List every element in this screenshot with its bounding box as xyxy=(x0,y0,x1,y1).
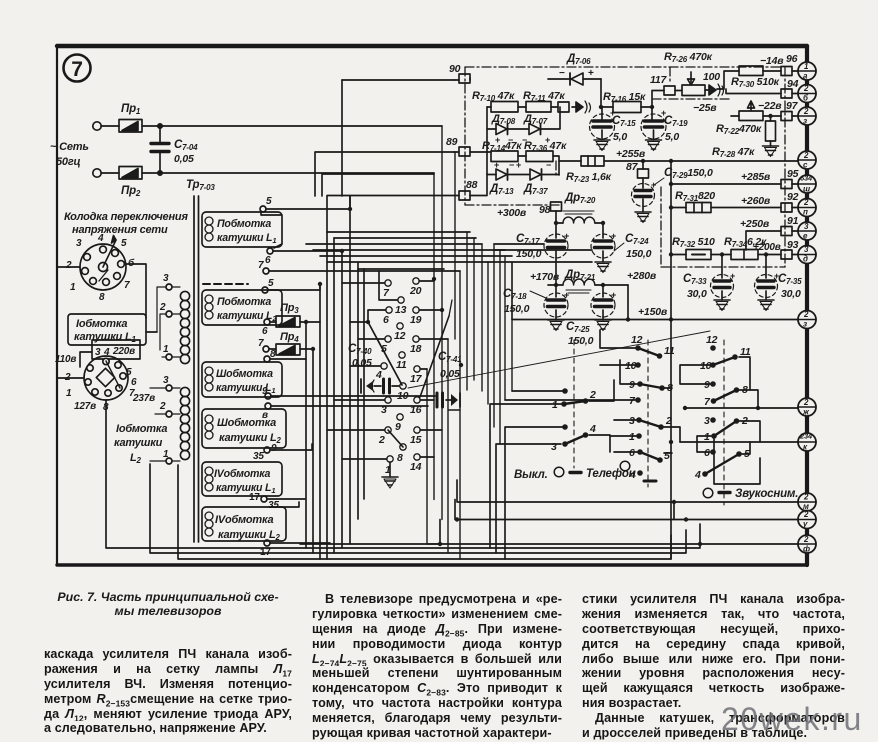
fuse Пр4 xyxy=(276,331,300,355)
svg-text:88: 88 xyxy=(466,179,478,191)
switch S4 dashed axis xyxy=(723,340,725,505)
capacitor C7-15 xyxy=(590,107,637,151)
winding box III L1 xyxy=(202,362,282,397)
svg-text:Iобмотка: Iобмотка xyxy=(76,318,127,330)
svg-text:д: д xyxy=(803,255,808,264)
primary coil L2 (left of core) xyxy=(180,387,189,459)
svg-text:2: 2 xyxy=(803,398,809,407)
S1 contact wires right xyxy=(419,281,448,457)
svg-text:11: 11 xyxy=(664,345,675,357)
svg-text:2: 2 xyxy=(803,198,809,207)
weave feeder verticals right xyxy=(482,244,500,444)
svg-text:2: 2 xyxy=(803,510,809,519)
label Колодка переключения напряжения сети xyxy=(64,211,188,236)
svg-text:+: + xyxy=(730,271,735,281)
svg-text:−: − xyxy=(559,68,565,79)
svg-text:6: 6 xyxy=(629,447,635,459)
svg-text:0,05: 0,05 xyxy=(174,153,194,165)
svg-text:+: + xyxy=(611,290,616,300)
label 117 and square xyxy=(650,74,682,107)
wire socket2 left xyxy=(57,352,92,378)
svg-text:2: 2 xyxy=(159,401,166,412)
bus terminal 1/a xyxy=(798,62,816,81)
svg-text:5: 5 xyxy=(664,450,670,462)
svg-text:4: 4 xyxy=(375,369,382,381)
svg-text:2: 2 xyxy=(803,151,809,160)
svg-text:IVобмотка: IVобмотка xyxy=(214,468,271,480)
svg-text:3: 3 xyxy=(381,404,387,416)
svg-text:8: 8 xyxy=(99,292,105,303)
middle bank ground xyxy=(0,0,1,1)
bottom harness wires xyxy=(106,400,700,559)
pin 7 of II L1 xyxy=(258,260,269,274)
junction dots R7-16 row xyxy=(599,105,603,109)
text column 1 xyxy=(44,647,292,736)
resistor R7-23 striped xyxy=(566,156,612,184)
wire row 2/у xyxy=(455,500,798,520)
capacitor C7-04 xyxy=(151,126,198,173)
svg-text:R7-26 470к: R7-26 470к xyxy=(664,51,713,64)
svg-text:катушки L2: катушки L2 xyxy=(218,529,281,542)
svg-text:5,0: 5,0 xyxy=(665,131,679,143)
svg-text:0,05: 0,05 xyxy=(440,368,460,380)
svg-text:7: 7 xyxy=(258,338,264,349)
svg-text:+: + xyxy=(494,160,499,170)
S1 lower wires xyxy=(427,369,442,544)
svg-text:+280в: +280в xyxy=(627,270,657,282)
svg-text:~ Сеть: ~ Сеть xyxy=(50,141,89,153)
wire 98 down xyxy=(555,211,557,234)
wire to 89 xyxy=(315,152,454,196)
svg-text:R7-22470к: R7-22470к xyxy=(716,123,762,136)
connector square 91 xyxy=(781,215,799,236)
svg-text:220в: 220в xyxy=(112,346,135,357)
svg-text:3: 3 xyxy=(163,273,169,284)
switch S4 arms xyxy=(713,357,735,365)
svg-text:18: 18 xyxy=(410,343,422,355)
wire pin7 IIL2 to Пр4 xyxy=(269,348,313,350)
wire pins IVL1 xyxy=(267,499,305,507)
svg-text:7: 7 xyxy=(129,388,135,399)
switch S3 ground xyxy=(644,480,656,483)
svg-text:91: 91 xyxy=(787,215,799,227)
label Телефон xyxy=(570,461,636,480)
S1 wiper C7-41 xyxy=(420,316,449,397)
svg-text:12: 12 xyxy=(394,330,406,342)
svg-text:1: 1 xyxy=(163,344,169,355)
voltage selector socket xyxy=(65,233,135,303)
mains terminal bottom xyxy=(93,169,101,177)
svg-text:2: 2 xyxy=(65,260,72,271)
resistor R7-28 vertical xyxy=(712,114,779,159)
svg-text:8: 8 xyxy=(397,452,403,464)
wire row 2/ф xyxy=(300,520,798,545)
caption xyxy=(43,590,293,618)
diode Д7-07 xyxy=(522,107,560,145)
capacitor C7-29 xyxy=(632,167,713,223)
text column 2 xyxy=(312,592,562,741)
svg-text:9: 9 xyxy=(704,379,710,391)
switch S3 dashed axis xyxy=(647,340,649,487)
svg-text:1: 1 xyxy=(70,282,76,293)
switch S4 wires xyxy=(680,357,760,484)
switch S3 arms xyxy=(638,348,660,356)
connector square 92 xyxy=(781,191,799,212)
svg-text:+: + xyxy=(611,231,616,241)
potentiometer R7-26 xyxy=(664,51,724,96)
switch S2 contacts xyxy=(561,388,588,447)
fuse Пр2 xyxy=(119,167,142,199)
svg-text:150,0: 150,0 xyxy=(568,335,594,347)
resistor R7-32 xyxy=(669,236,731,260)
tap square and grid arrow xyxy=(558,101,591,113)
wire to 88 row xyxy=(327,196,459,233)
svg-text:35: 35 xyxy=(268,500,279,511)
bus terminal 2/у xyxy=(798,510,816,529)
bus terminal 2/з lower xyxy=(798,310,816,329)
switch wafer S1 contacts left column xyxy=(375,280,393,476)
wire R7-10 row xyxy=(487,106,558,108)
wire pin9 IIIL2 xyxy=(270,444,312,450)
svg-text:237в: 237в xyxy=(132,393,155,404)
svg-text:95: 95 xyxy=(787,168,799,180)
diode Д7-13 xyxy=(487,160,529,196)
connector square 96 xyxy=(781,53,798,76)
wire socket1 to windings xyxy=(57,264,157,332)
connector square 97 xyxy=(781,100,799,121)
wire 89 to R7-14 xyxy=(454,151,491,153)
svg-text:87: 87 xyxy=(626,161,639,173)
vertical feeders right of switch area xyxy=(671,320,674,560)
mains terminal top xyxy=(93,122,101,130)
connector square 87 xyxy=(626,161,649,178)
pin 6 of II L2 xyxy=(262,319,270,337)
svg-text:R7-23 1,6к: R7-23 1,6к xyxy=(566,171,612,184)
svg-text:30,0: 30,0 xyxy=(781,288,801,300)
svg-text:150,0: 150,0 xyxy=(504,303,530,315)
bus terminal 3/д xyxy=(798,245,816,264)
svg-text:−25в: −25в xyxy=(693,102,717,114)
svg-text:4: 4 xyxy=(694,469,701,481)
svg-text:7: 7 xyxy=(258,260,264,271)
svg-text:13: 13 xyxy=(395,304,407,316)
svg-text:катушки: катушки xyxy=(114,437,163,449)
switch S3 numbers xyxy=(625,334,675,481)
svg-text:9: 9 xyxy=(395,421,401,433)
resistor R7-11 xyxy=(523,90,565,112)
svg-text:10: 10 xyxy=(625,360,637,372)
switch S3 contacts xyxy=(635,345,665,476)
svg-text:Колодка переключения: Колодка переключения xyxy=(64,211,188,223)
switch S2 arms xyxy=(564,401,586,404)
+250в row xyxy=(740,218,781,250)
S1 wiper 2-8 xyxy=(388,430,403,447)
svg-text:5: 5 xyxy=(268,278,274,289)
capacitor C7-18 xyxy=(503,285,568,331)
svg-text:234: 234 xyxy=(799,432,813,441)
wire row 2/м xyxy=(457,480,798,502)
bus terminal 2/ф xyxy=(798,535,816,554)
svg-text:98: 98 xyxy=(539,204,551,216)
svg-text:3: 3 xyxy=(76,238,82,249)
svg-text:ф: ф xyxy=(803,545,810,554)
wire top bus to 90 xyxy=(342,79,454,81)
wire mains top xyxy=(101,125,442,127)
S1 contact wires left xyxy=(327,271,398,459)
wire pin6 IIL1 xyxy=(273,250,342,252)
pin 7 of II L2 xyxy=(258,338,269,352)
primary taps xyxy=(150,273,180,464)
pin 9 of III L1 xyxy=(262,386,271,399)
svg-text:100: 100 xyxy=(703,71,720,83)
resistor R7-34 xyxy=(724,236,781,260)
dash-dot rectifier block boundary xyxy=(465,67,785,267)
svg-text:10: 10 xyxy=(700,360,712,372)
coupling diagonal xyxy=(408,331,710,388)
wire Д7-06 down to R7-16 xyxy=(600,79,602,107)
switch wafer S1 contacts middle column xyxy=(394,297,407,464)
resistor R7-22 xyxy=(693,100,782,136)
transformer core xyxy=(194,196,199,542)
S1 ground xyxy=(382,462,398,488)
figure number 7 xyxy=(64,55,91,82)
switch S2 dashed axis xyxy=(573,340,575,468)
wire row 234/к xyxy=(680,441,798,443)
svg-text:Побмотка: Побмотка xyxy=(217,218,271,230)
svg-text:2: 2 xyxy=(378,434,385,446)
svg-text:+170в: +170в xyxy=(530,271,560,283)
svg-text:п: п xyxy=(803,208,808,217)
label C7-40 xyxy=(348,343,372,369)
choke Др7-21 xyxy=(548,269,628,293)
svg-text:15: 15 xyxy=(410,434,422,446)
switch S3 wires xyxy=(505,330,680,453)
left lower feeders xyxy=(505,256,512,400)
svg-text:ш: ш xyxy=(803,185,810,194)
bus terminal 2/з xyxy=(798,107,816,126)
pin 17 of IV L2 xyxy=(260,540,271,558)
svg-text:+: + xyxy=(564,290,569,300)
svg-text:Шобмотка: Шобмотка xyxy=(216,368,273,380)
svg-text:+255в: +255в xyxy=(616,148,646,160)
winding box II L1 xyxy=(202,212,282,247)
svg-text:Выкл.: Выкл. xyxy=(514,469,548,481)
svg-text:90: 90 xyxy=(449,63,461,75)
weave horizontals mid xyxy=(306,232,592,269)
vertical link left column xyxy=(486,107,488,175)
svg-text:5,0: 5,0 xyxy=(613,131,627,143)
wire row 2/ж xyxy=(685,407,798,409)
svg-text:−14в: −14в xyxy=(760,55,784,67)
svg-text:9: 9 xyxy=(629,379,635,391)
resistor R7-36 xyxy=(524,140,567,162)
svg-text:150,0: 150,0 xyxy=(626,248,652,260)
pin 8 of III L2 xyxy=(262,403,271,421)
svg-text:9: 9 xyxy=(262,386,268,397)
svg-text:9: 9 xyxy=(271,443,277,454)
connector square 94 xyxy=(781,78,799,98)
svg-text:5: 5 xyxy=(121,238,127,249)
choke Др7-20 xyxy=(556,192,603,223)
winding box IV L2 xyxy=(202,507,286,542)
svg-text:+: + xyxy=(651,180,656,190)
box I обмотка катушки L1 xyxy=(68,314,146,345)
svg-text:10: 10 xyxy=(397,390,409,402)
junctions weave xyxy=(304,207,463,367)
svg-text:−: − xyxy=(546,160,551,170)
svg-text:2: 2 xyxy=(159,302,166,313)
capacitor C7-41 symbol xyxy=(420,393,460,407)
svg-text:+150в: +150в xyxy=(638,306,668,318)
svg-text:12: 12 xyxy=(706,334,718,346)
connector square 93 xyxy=(781,239,799,259)
wire pin5 IIL1 to bundle xyxy=(266,196,350,209)
svg-text:+300в: +300в xyxy=(497,207,527,219)
switch S2 wires xyxy=(490,380,614,559)
svg-text:+200в: +200в xyxy=(753,242,781,253)
label Выкл xyxy=(514,467,564,481)
wire pin8 IIL2 xyxy=(270,358,306,360)
switch S4 contacts xyxy=(702,345,742,477)
svg-text:11: 11 xyxy=(396,359,407,371)
svg-text:Шобмотка: Шобмотка xyxy=(217,417,276,429)
switch S4 numbers xyxy=(694,334,751,481)
bus terminal 2/п xyxy=(798,198,816,217)
wire mains bottom xyxy=(101,172,434,174)
svg-text:2: 2 xyxy=(803,493,809,502)
svg-text:напряжения сети: напряжения сети xyxy=(72,224,168,236)
switch S2 numbers xyxy=(551,389,596,453)
svg-text:2: 2 xyxy=(803,107,809,116)
capacitor C7-17 xyxy=(516,233,568,283)
svg-text:96: 96 xyxy=(786,53,798,65)
junction dots lower xyxy=(438,440,702,546)
wire +280в down xyxy=(627,285,629,320)
svg-text:5: 5 xyxy=(266,196,272,207)
capacitor C7-24 xyxy=(591,223,652,273)
svg-text:17: 17 xyxy=(410,373,423,385)
svg-text:4: 4 xyxy=(589,423,596,435)
svg-text:35: 35 xyxy=(253,451,264,462)
svg-text:1: 1 xyxy=(163,449,169,460)
svg-text:0,05: 0,05 xyxy=(352,357,372,369)
svg-text:117: 117 xyxy=(650,74,667,86)
svg-text:150,0: 150,0 xyxy=(516,248,542,260)
wire pin7 IIL1 xyxy=(269,270,460,272)
winding box III L2 xyxy=(202,409,286,448)
diode Д7-37 xyxy=(516,160,559,196)
svg-text:+: + xyxy=(774,271,779,281)
capacitor C7-40 symbol xyxy=(361,379,399,393)
svg-text:+260в: +260в xyxy=(741,195,771,207)
svg-text:2: 2 xyxy=(803,535,809,544)
winding box IV L1 xyxy=(202,462,282,496)
label I обмотка катушки L2 xyxy=(114,423,167,465)
pin 6 of II L1 xyxy=(265,244,282,266)
connector square 89 xyxy=(446,136,470,156)
svg-text:6: 6 xyxy=(262,326,268,337)
vertical supply bus x671 xyxy=(670,161,672,320)
bus terminal 2/б xyxy=(798,84,816,103)
S1 wiper C7-40 xyxy=(368,322,402,385)
svg-text:−: − xyxy=(509,160,514,170)
resistor R7-14 xyxy=(482,140,522,162)
bus terminal 3/е xyxy=(798,222,816,241)
fuse Пр3 xyxy=(276,302,300,327)
svg-text:16: 16 xyxy=(410,404,422,416)
resistor R7-30 xyxy=(717,55,784,89)
+285в row xyxy=(669,171,781,186)
switch wafer S1 contacts right column xyxy=(397,278,423,473)
svg-text:2: 2 xyxy=(803,310,809,319)
svg-text:IVобмотка: IVобмотка xyxy=(215,514,274,526)
svg-text:50гц: 50гц xyxy=(56,156,81,168)
primary coil L1 (left of core) xyxy=(180,291,189,363)
svg-text:у: у xyxy=(802,520,808,529)
svg-text:катушки L1: катушки L1 xyxy=(217,232,276,245)
svg-text:19: 19 xyxy=(410,314,422,326)
bus terminal 234/к xyxy=(798,432,816,452)
svg-text:б: б xyxy=(128,257,135,269)
svg-text:+: + xyxy=(661,108,666,118)
svg-text:катушки L2: катушки L2 xyxy=(217,310,277,323)
bus terminal 2/с xyxy=(798,151,816,170)
wire 90 row xyxy=(454,78,470,80)
svg-text:634: 634 xyxy=(800,174,813,183)
svg-text:7: 7 xyxy=(71,58,82,81)
resistor R7-16 xyxy=(601,91,652,113)
svg-text:−22в: −22в xyxy=(758,100,782,112)
resistor R7-10 xyxy=(472,90,518,112)
capacitor C7-33 xyxy=(683,255,734,311)
bus terminal 2/м xyxy=(798,493,816,512)
svg-text:3: 3 xyxy=(163,375,169,386)
+150в row xyxy=(512,319,798,321)
svg-text:4: 4 xyxy=(97,233,104,244)
svg-text:30,0: 30,0 xyxy=(687,288,707,300)
svg-text:6: 6 xyxy=(265,255,271,266)
junction dots mains xyxy=(158,124,162,128)
capacitor C7-35 xyxy=(755,255,803,311)
watermark xyxy=(721,701,863,738)
svg-text:R7-30 510к: R7-30 510к xyxy=(731,76,780,89)
svg-text:+250в: +250в xyxy=(740,218,770,230)
label C7-41 xyxy=(438,351,462,380)
wire R7-30 bottom to 94 xyxy=(726,89,781,94)
diode Д7-08 xyxy=(487,113,528,145)
svg-text:1: 1 xyxy=(66,388,72,399)
bus terminal 2/ж xyxy=(798,398,816,417)
capacitor C7-19 xyxy=(641,107,688,151)
svg-text:127в: 127в xyxy=(74,401,96,412)
svg-text:Звукосним.: Звукосним. xyxy=(735,488,798,500)
winding box II L2 xyxy=(202,290,282,325)
dashed core gap xyxy=(203,283,248,285)
wire R7-14 row xyxy=(518,156,559,175)
diode Д7-06 xyxy=(548,53,601,85)
pin 5 of II L2 xyxy=(262,278,274,293)
svg-text:+: + xyxy=(610,108,615,118)
svg-text:катушки L1: катушки L1 xyxy=(74,331,137,344)
svg-text:+: + xyxy=(516,160,521,170)
svg-text:6: 6 xyxy=(131,377,137,388)
text column 3 xyxy=(582,592,845,741)
connector square 88 xyxy=(459,179,478,200)
label ~ Сеть 50гц xyxy=(50,141,89,168)
socket 110/220/127/237 xyxy=(55,340,155,413)
svg-text:+: + xyxy=(564,231,569,241)
label Звукосним xyxy=(703,488,798,500)
